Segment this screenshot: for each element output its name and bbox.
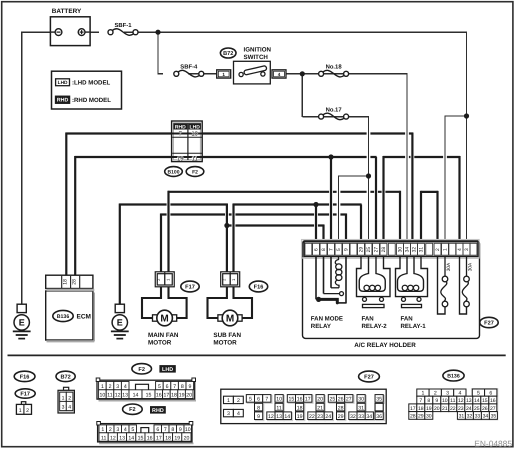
svg-text:19: 19 — [297, 414, 303, 420]
ignition switch body — [234, 61, 271, 84]
svg-text:12: 12 — [268, 414, 274, 420]
svg-text:MOTOR: MOTOR — [213, 339, 237, 346]
svg-text:FAN: FAN — [401, 316, 413, 323]
wire: ignition switch terminal 4 to No.18/No.17 junction — [286, 73, 309, 75]
wire: relay holder pin 9 stub — [345, 214, 347, 242]
wire: junction down to fuse No.17 — [301, 74, 303, 117]
svg-text:21: 21 — [442, 406, 448, 412]
connector layout label F2 (LHD) — [132, 364, 152, 374]
wire: relay holder pin 4 stub — [458, 156, 460, 242]
B72 pin layout — [64, 387, 69, 390]
svg-text:LHD: LHD — [162, 367, 173, 373]
svg-text:20: 20 — [184, 435, 190, 441]
svg-text:FAN: FAN — [362, 316, 374, 323]
svg-text:3: 3 — [464, 248, 470, 251]
svg-text:11: 11 — [192, 156, 199, 163]
svg-text:SWITCH: SWITCH — [244, 54, 269, 61]
svg-text:RELAY-2: RELAY-2 — [362, 323, 388, 330]
svg-text:8: 8 — [427, 398, 430, 404]
svg-text:5: 5 — [131, 427, 134, 433]
wire: No.17 branch to relay holder pin 5 — [338, 175, 369, 177]
svg-text:ECM: ECM — [77, 313, 91, 320]
svg-text:31: 31 — [358, 405, 364, 411]
svg-text:12: 12 — [110, 435, 116, 441]
svg-text:1: 1 — [101, 427, 104, 433]
svg-text:1: 1 — [227, 398, 230, 404]
wire: battery minus down to ground E — [21, 32, 23, 305]
wire crossing gaps — [367, 132, 371, 136]
svg-text:3: 3 — [227, 411, 230, 417]
wire: relay holder pin 2 stub — [436, 191, 438, 242]
wire: SBF-1 to right-side feed (main battery bus) — [124, 31, 467, 33]
svg-text:RHD: RHD — [152, 408, 164, 414]
svg-text:2: 2 — [26, 408, 29, 414]
svg-text:SBF-4: SBF-4 — [180, 64, 198, 71]
fuse SBF-4 — [174, 71, 179, 76]
svg-text:17: 17 — [410, 406, 416, 412]
svg-text:2: 2 — [237, 398, 240, 404]
wire: battery feed down to relay holder pin 3 — [466, 32, 468, 242]
svg-text:4: 4 — [237, 411, 240, 417]
svg-text:LHD: LHD — [58, 80, 68, 86]
svg-text:34: 34 — [405, 247, 411, 253]
svg-text:27: 27 — [374, 247, 380, 253]
svg-text:19: 19 — [179, 393, 185, 399]
svg-text:23: 23 — [317, 414, 323, 420]
svg-text:16: 16 — [147, 435, 153, 441]
svg-text:26: 26 — [338, 397, 344, 403]
svg-text:8: 8 — [257, 405, 260, 411]
svg-text:1: 1 — [443, 248, 449, 251]
wire: main fan pin 2 riser — [160, 214, 162, 274]
svg-text:E: E — [117, 317, 123, 327]
svg-text:B136: B136 — [57, 314, 70, 320]
wire: relay holder pin 8 stub — [322, 225, 324, 242]
wire: battery plus to SBF-1 — [90, 31, 99, 33]
connector B100/F2 (RHD-LHD junction block) — [172, 121, 203, 162]
node: ignition feed junction — [300, 71, 305, 76]
svg-text:35: 35 — [491, 414, 497, 420]
svg-text:B100: B100 — [168, 170, 180, 176]
svg-text:24: 24 — [466, 406, 472, 412]
node: battery feed junction — [464, 113, 469, 118]
svg-text:17: 17 — [164, 393, 170, 399]
svg-text:29: 29 — [359, 247, 365, 253]
svg-text:14: 14 — [128, 435, 134, 441]
main fan motor F17 connector — [155, 272, 174, 287]
svg-text:F17: F17 — [20, 392, 30, 398]
svg-text:1: 1 — [62, 395, 65, 401]
svg-text:7: 7 — [173, 384, 176, 390]
svg-text:8: 8 — [171, 427, 174, 433]
svg-text:9: 9 — [179, 427, 182, 433]
relay holder pin row — [302, 240, 479, 258]
svg-text:IGNITION: IGNITION — [244, 47, 272, 54]
svg-text:No.18: No.18 — [326, 64, 343, 71]
svg-text:LHD: LHD — [190, 124, 201, 130]
RHD badge — [150, 406, 166, 414]
wire: relay holder pin 7 stub — [330, 157, 332, 242]
ground E (middle) — [115, 304, 124, 312]
svg-text:6: 6 — [166, 384, 169, 390]
svg-text:20: 20 — [434, 406, 440, 412]
svg-text:6: 6 — [314, 248, 320, 251]
section divider — [8, 354, 506, 356]
ignition switch blade — [244, 66, 267, 76]
svg-text:20: 20 — [317, 397, 323, 403]
node: No.17 branch junction — [366, 173, 371, 178]
wire: ECM pin 28 riser — [74, 156, 76, 276]
svg-text:19: 19 — [426, 406, 432, 412]
svg-text:RHD: RHD — [57, 98, 69, 104]
svg-text:EN-04885: EN-04885 — [474, 438, 512, 448]
F27 pin layout — [221, 389, 386, 423]
svg-text:3: 3 — [116, 384, 119, 390]
svg-text:F2: F2 — [138, 367, 145, 373]
connector layout label B72 — [56, 371, 75, 381]
svg-text:25: 25 — [330, 397, 336, 403]
battery — [50, 17, 90, 46]
svg-text:B136: B136 — [447, 374, 460, 380]
svg-text:28: 28 — [410, 414, 416, 420]
svg-text:5: 5 — [336, 248, 342, 251]
fuse No.18 — [319, 71, 324, 76]
svg-text:34: 34 — [483, 414, 489, 420]
connector label F17 — [181, 281, 199, 292]
svg-text:B72: B72 — [60, 374, 70, 380]
fan mode relay — [315, 257, 317, 300]
svg-text:25: 25 — [474, 406, 480, 412]
svg-text:18: 18 — [418, 406, 424, 412]
fuse SBF-1 — [108, 30, 113, 35]
svg-text:17: 17 — [305, 397, 311, 403]
relay holder pin cells — [313, 243, 320, 255]
svg-text:27: 27 — [490, 406, 496, 412]
svg-text:30: 30 — [426, 414, 432, 420]
svg-text:30A: 30A — [446, 262, 452, 271]
A/C relay holder outline — [303, 241, 480, 339]
wire: middle ground E riser — [119, 204, 121, 305]
connector layout label F27 — [359, 371, 380, 382]
svg-text:B72: B72 — [223, 51, 233, 57]
wire: junction down to SBF-4 — [157, 32, 159, 74]
svg-text:16: 16 — [297, 397, 303, 403]
ground E (left) — [17, 304, 26, 312]
svg-text:1: 1 — [19, 408, 22, 414]
connector layout label F2 (RHD) — [123, 404, 143, 414]
30A fuse — [466, 257, 468, 277]
svg-text:13: 13 — [466, 398, 472, 404]
wire: main fan pin 2 to relay holder pin 9 bus — [160, 213, 346, 215]
svg-text:13: 13 — [119, 435, 125, 441]
wire: fan connector to motor — [142, 287, 161, 318]
svg-text:4: 4 — [68, 405, 71, 411]
svg-text:3: 3 — [62, 405, 65, 411]
svg-text:1: 1 — [101, 384, 104, 390]
F2 RHD pin layout — [99, 442, 193, 444]
wire: fuse No.18 down to relay holder pin 34 — [406, 73, 408, 242]
svg-text:18: 18 — [63, 279, 69, 285]
svg-text:2: 2 — [109, 384, 112, 390]
svg-text:33: 33 — [475, 414, 481, 420]
connector label F27 — [480, 317, 498, 327]
svg-text:11: 11 — [107, 393, 112, 399]
svg-text:8: 8 — [181, 384, 184, 390]
svg-text::LHD MODEL: :LHD MODEL — [72, 80, 111, 87]
ECM connector row — [46, 275, 93, 288]
svg-text:13: 13 — [122, 393, 128, 399]
svg-text:28: 28 — [72, 279, 78, 285]
motor sub fan motor F16 — [218, 315, 224, 321]
svg-text:30A: 30A — [467, 262, 473, 271]
connector label B136 — [53, 310, 73, 321]
node: pin7/pin27 junction — [328, 154, 333, 159]
connector layout label F16 — [14, 371, 35, 381]
svg-text:24: 24 — [325, 414, 331, 420]
svg-text:13: 13 — [276, 414, 282, 420]
svg-text:4: 4 — [124, 427, 127, 433]
svg-text:6: 6 — [257, 397, 260, 403]
svg-text:28: 28 — [381, 247, 387, 253]
svg-text:18: 18 — [297, 405, 303, 411]
svg-text:17: 17 — [156, 435, 162, 441]
wire: branch down to relay holder pin 1 — [444, 115, 446, 241]
svg-text:33: 33 — [358, 414, 364, 420]
wire: fan connector to motor — [208, 287, 227, 318]
svg-text:M: M — [160, 314, 168, 325]
svg-text:10: 10 — [100, 393, 106, 399]
svg-text:15: 15 — [138, 435, 144, 441]
svg-text:F16: F16 — [20, 374, 30, 380]
svg-text:4: 4 — [278, 72, 281, 77]
svg-text:RELAY: RELAY — [311, 323, 331, 330]
svg-text:SUB FAN: SUB FAN — [213, 332, 241, 339]
svg-text:RHD: RHD — [175, 124, 186, 130]
svg-text:FAN MODE: FAN MODE — [311, 316, 343, 323]
FAN RELAY-2 — [357, 257, 391, 297]
svg-text:6: 6 — [156, 427, 159, 433]
ignition switch terminal 4 — [272, 70, 286, 78]
svg-text:34: 34 — [366, 414, 372, 420]
svg-text:14: 14 — [474, 398, 480, 404]
svg-text:15: 15 — [289, 397, 295, 403]
ignition switch terminal 1 — [217, 70, 231, 78]
svg-text:30: 30 — [358, 397, 364, 403]
svg-text:F16: F16 — [254, 285, 264, 291]
wire: ground bus to sub fan pin 2 — [119, 203, 227, 205]
svg-text:F27: F27 — [484, 321, 494, 327]
F16/F17 pin layout — [21, 402, 25, 405]
svg-text:15: 15 — [482, 398, 488, 404]
svg-text:27: 27 — [346, 397, 352, 403]
svg-text:15: 15 — [146, 393, 152, 399]
svg-text:32: 32 — [467, 414, 473, 420]
svg-text:11: 11 — [276, 405, 281, 411]
svg-text:18: 18 — [171, 393, 177, 399]
svg-text:SBF-1: SBF-1 — [114, 22, 132, 29]
wire: ECM pin to relay holder pin 32 bus — [66, 132, 413, 134]
wire: SBF-4 to ignition switch terminal 1 — [188, 73, 217, 75]
connector layout label F17 — [15, 389, 35, 398]
svg-text:2: 2 — [68, 395, 71, 401]
node: sub fan ground junction — [224, 223, 229, 228]
wire: ECM pin to relay holder pins 7/27 bus — [75, 156, 377, 158]
wire: junction to SBF-4 — [157, 73, 163, 75]
svg-text:E: E — [19, 317, 25, 327]
ignition switch B72 — [220, 48, 236, 58]
svg-text:2: 2 — [435, 248, 441, 251]
svg-text:F17: F17 — [185, 285, 195, 291]
svg-text:22: 22 — [309, 414, 315, 420]
wire: relay holder pin 6 stub — [315, 205, 317, 242]
svg-text:23: 23 — [458, 406, 464, 412]
svg-text:12: 12 — [458, 398, 464, 404]
svg-text:No.17: No.17 — [326, 106, 343, 113]
connector label F16 — [249, 281, 267, 292]
connector label B100 — [165, 167, 183, 177]
svg-text:1: 1 — [222, 72, 225, 77]
svg-text:RELAY-1: RELAY-1 — [401, 323, 427, 330]
svg-text:31: 31 — [459, 414, 465, 420]
fuse No.17 — [319, 114, 324, 119]
fan mode relay contact blade — [319, 299, 338, 303]
svg-text:8: 8 — [321, 248, 327, 251]
svg-text:14: 14 — [284, 414, 290, 420]
svg-text:16: 16 — [156, 393, 162, 399]
svg-text:10: 10 — [191, 130, 198, 137]
sub fan motor F16 connector — [221, 272, 240, 287]
svg-text:10: 10 — [185, 427, 191, 433]
svg-text:7: 7 — [419, 398, 422, 404]
svg-text:10: 10 — [276, 397, 282, 403]
svg-text:36: 36 — [376, 414, 382, 420]
svg-text:7: 7 — [265, 397, 268, 403]
svg-text:F2: F2 — [129, 407, 136, 413]
svg-text:9: 9 — [188, 384, 191, 390]
svg-text:9: 9 — [344, 248, 350, 251]
svg-text:32: 32 — [350, 414, 356, 420]
F2 LHD pin layout — [99, 400, 197, 402]
svg-text:32: 32 — [412, 247, 418, 253]
wire: sub fan pin 1 to relay holder pins 6/29 bus — [233, 203, 362, 205]
svg-text:31: 31 — [419, 247, 425, 253]
wire: relay holder pin 28 to pin 4 bus — [383, 156, 460, 158]
svg-text:F2: F2 — [192, 170, 198, 176]
wire: battery feed branch to pin 1 (30A fuse) — [444, 115, 467, 117]
svg-text:30: 30 — [398, 247, 404, 253]
svg-text:5: 5 — [158, 384, 161, 390]
svg-text:26: 26 — [482, 406, 488, 412]
connector layout label B136 — [443, 370, 464, 381]
svg-text:7: 7 — [329, 248, 335, 251]
svg-text:7: 7 — [164, 427, 167, 433]
svg-text:3: 3 — [116, 427, 119, 433]
wire: main fan pin 1 riser — [167, 191, 169, 273]
wire: relay holder pin 31 to pin 2 bridge — [420, 191, 438, 193]
svg-text:BATTERY: BATTERY — [52, 8, 82, 15]
svg-text:F27: F27 — [364, 375, 374, 381]
svg-text:29: 29 — [338, 414, 344, 420]
motor main fan motor F17 — [153, 315, 159, 321]
svg-text:16: 16 — [490, 398, 496, 404]
wire: sub fan ground branch to relay holder pin 8 — [227, 224, 324, 226]
wire: fuse No.17 down to relay holder pin 25 — [368, 116, 370, 242]
svg-text:MAIN FAN: MAIN FAN — [148, 332, 179, 339]
svg-text:28: 28 — [338, 405, 344, 411]
svg-text:10: 10 — [442, 398, 448, 404]
svg-text:2: 2 — [109, 427, 112, 433]
ECM B136 — [46, 291, 93, 340]
connector label F2 — [186, 167, 204, 177]
svg-text:11: 11 — [450, 398, 455, 404]
svg-text:14: 14 — [133, 393, 139, 399]
svg-text:9: 9 — [435, 398, 438, 404]
svg-text:9: 9 — [257, 414, 260, 420]
svg-text:19: 19 — [174, 435, 180, 441]
svg-text:5: 5 — [249, 397, 252, 403]
wire: fuse No.17 row — [302, 116, 369, 118]
wire: relay holder pin 30 stub — [399, 191, 401, 242]
wire: battery minus to left ground run — [22, 31, 51, 33]
svg-text:19: 19 — [177, 156, 184, 163]
svg-text:35: 35 — [376, 397, 382, 403]
svg-text:4: 4 — [457, 248, 463, 251]
wire: relay holder pin 31 stub — [420, 191, 422, 242]
svg-text:11: 11 — [101, 435, 106, 441]
wire: branch down to relay holder pin 5 — [338, 175, 340, 241]
svg-text::RHD MODEL: :RHD MODEL — [72, 97, 111, 104]
wire: main fan pin 1 to relay holder pin 30 bus — [168, 191, 401, 193]
30A fuse — [444, 257, 446, 277]
wire: junction to fuse No.18 — [302, 73, 407, 75]
B136 pin layout — [471, 388, 498, 397]
svg-text:A/C RELAY HOLDER: A/C RELAY HOLDER — [354, 342, 416, 349]
FAN RELAY-1 — [396, 257, 428, 297]
svg-text:M: M — [226, 314, 234, 325]
svg-text:25: 25 — [366, 247, 372, 253]
node: pin6 branch junction — [313, 202, 318, 207]
wire: relay holder pin 27 stub — [375, 157, 377, 242]
svg-text:MOTOR: MOTOR — [148, 339, 172, 346]
wire: relay holder pin 29 stub — [360, 205, 362, 242]
svg-text:29: 29 — [418, 414, 424, 420]
svg-text:21: 21 — [317, 405, 323, 411]
svg-text:22: 22 — [450, 406, 456, 412]
LHD badge — [159, 365, 175, 373]
svg-text:20: 20 — [186, 393, 192, 399]
wire: ECM pin 18 riser — [65, 133, 67, 276]
legend: LHD/RHD model note — [52, 71, 122, 109]
wire: sub fan pin 2 riser — [226, 204, 228, 274]
svg-text:4: 4 — [124, 384, 127, 390]
wire: sub fan pin 1 riser — [232, 204, 234, 274]
wire: relay holder pin 32 stub — [411, 133, 413, 242]
wire: relay holder pin 28 stub — [382, 156, 384, 242]
fan mode relay coil — [335, 257, 338, 265]
svg-text:12: 12 — [115, 393, 121, 399]
svg-text:18: 18 — [165, 435, 171, 441]
node: battery bus junction — [155, 30, 160, 35]
